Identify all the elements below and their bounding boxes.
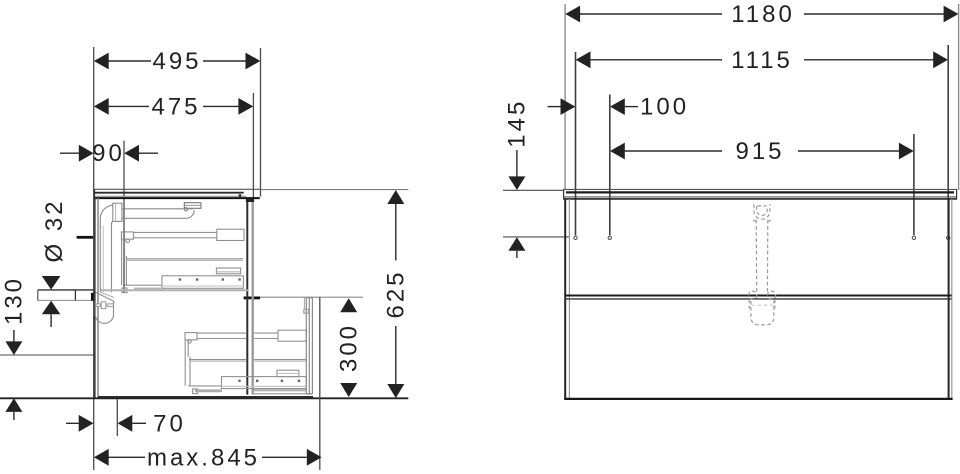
upper drawer shadow strip <box>134 287 162 289</box>
extension line 1180 right <box>958 4 960 190</box>
upper drawer screws <box>179 278 241 280</box>
wall mount tick <box>77 236 93 239</box>
extension line 915 right <box>913 134 915 235</box>
cabinet front edge bars (side view) <box>246 198 254 394</box>
lower drawer screw circle <box>188 340 192 344</box>
upper drawer group <box>101 229 248 292</box>
dimension 475 <box>94 93 253 120</box>
dimension 70 <box>66 410 186 437</box>
dashed trap (front view, hidden) <box>749 204 776 325</box>
extension line 1115 left <box>575 52 577 235</box>
cabinet sides (front view) <box>565 199 952 399</box>
pipe coupling <box>113 203 122 221</box>
basin drain plug <box>184 203 201 211</box>
svg-text:70: 70 <box>153 410 186 437</box>
upper drawer foot <box>122 288 127 293</box>
trap side tabs <box>749 299 753 308</box>
dimension 1180 <box>565 1 958 28</box>
svg-text:300: 300 <box>335 323 362 372</box>
extension line 100/915 left <box>609 95 611 236</box>
floor line <box>0 397 408 399</box>
reference line 625 top (countertop level extended) <box>261 189 409 191</box>
svg-text:1180: 1180 <box>731 1 795 28</box>
countertop (side view) <box>94 189 260 198</box>
extension line 1180 left <box>564 4 566 190</box>
dimension 915 <box>610 138 914 165</box>
trap tailpipe <box>755 220 758 292</box>
lower drawer bottom edge <box>254 393 312 395</box>
extension line 495 right <box>260 48 262 197</box>
dimension Ø32 (drain pipe diameter, rotated) <box>41 198 68 327</box>
trap cup <box>751 301 774 325</box>
vertical drain pipe <box>100 226 111 292</box>
svg-text:1115: 1115 <box>731 47 793 74</box>
lower drawer shadow strip <box>195 389 222 392</box>
dimension 130 (rotated) <box>1 276 28 420</box>
extension line max845 right <box>319 297 321 470</box>
dimension 1115 <box>576 47 948 74</box>
cabinet left wall (side view) <box>95 198 98 398</box>
lower drawer bottom bar <box>222 377 307 389</box>
black tick at divider on front face <box>244 297 261 300</box>
reference line 145 bottom <box>503 236 570 238</box>
dimension 100 <box>548 94 690 121</box>
dimension max.845 <box>94 444 322 471</box>
open drawer front panel <box>304 298 313 394</box>
extension line 70 right <box>116 399 118 436</box>
lower drawer screws <box>238 380 300 382</box>
upper drawer bracket <box>216 268 240 274</box>
horizontal drain pipe <box>122 209 194 219</box>
lower drawer back wall <box>184 340 186 386</box>
trap flange outer cup <box>754 204 770 219</box>
drain elbow <box>100 205 113 228</box>
wall outlet pipe <box>38 290 94 301</box>
extension line left (495/475/90/max845 left boundary) <box>93 47 95 470</box>
svg-text:915: 915 <box>735 138 784 165</box>
reference line 145 top <box>503 189 564 191</box>
svg-text:625: 625 <box>383 269 410 318</box>
upper drawer screw circle <box>126 239 130 243</box>
upper drawer side top <box>125 256 127 285</box>
upper drawer back wall <box>121 239 123 285</box>
svg-text:495: 495 <box>152 48 201 75</box>
upper drawer bottom bar <box>162 276 243 289</box>
upper drawer rail <box>133 231 216 233</box>
lower drawer foot <box>193 389 198 394</box>
drawer divider (front view) <box>565 296 952 299</box>
dimension 90 <box>60 140 158 167</box>
dimension 300 (rotated) <box>335 298 362 397</box>
extension line 1115 right <box>947 45 949 235</box>
svg-text:max.845: max.845 <box>147 444 260 471</box>
dimension 145 (rotated) <box>504 99 531 258</box>
upper drawer back cap <box>121 232 133 239</box>
svg-text:475: 475 <box>151 93 200 120</box>
reference line 300 top (divider level extended) <box>260 296 363 298</box>
dimension 495 <box>94 48 260 75</box>
trap flange inner cup <box>757 206 768 216</box>
lower drawer back cap <box>185 333 197 340</box>
countertop (front view) <box>563 189 957 199</box>
lower drawer group (pulled open) <box>185 330 312 394</box>
lower drawer bracket <box>277 370 299 376</box>
extension line 90 right / drain axis <box>123 141 125 292</box>
cabinet bottom (side view) <box>98 396 313 398</box>
lower drawer side top <box>189 357 191 386</box>
mounting hole circles <box>574 236 950 239</box>
svg-text:130: 130 <box>1 276 28 325</box>
extension line 475 right <box>252 93 254 199</box>
reference line 130 top (drain outlet height) <box>0 354 94 356</box>
cabinet bottom (front view) <box>564 398 952 400</box>
dimension 625 (rotated) <box>383 190 410 398</box>
trap collar ears <box>749 291 757 299</box>
lower drawer rail <box>197 332 246 334</box>
svg-text:90: 90 <box>92 140 125 167</box>
svg-text:145: 145 <box>504 99 531 148</box>
svg-text:100: 100 <box>640 94 689 121</box>
svg-text:Ø 32: Ø 32 <box>41 198 68 262</box>
siphon trap <box>95 292 114 323</box>
